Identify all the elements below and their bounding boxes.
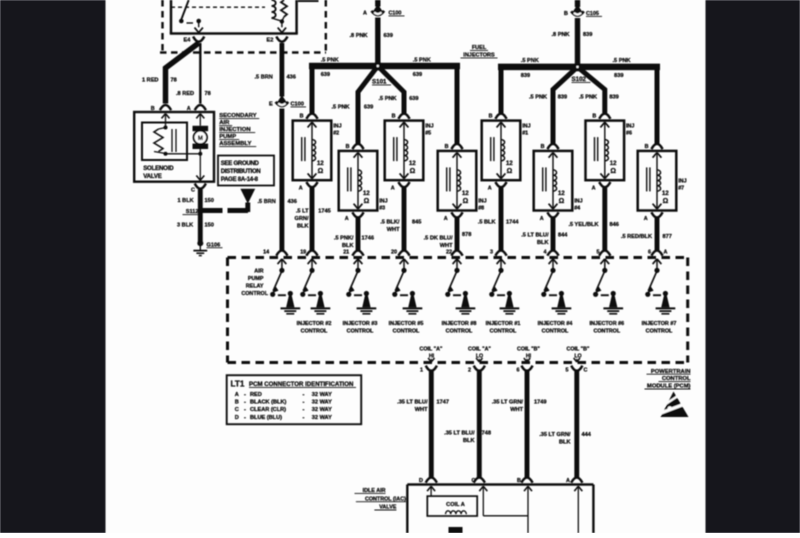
svg-text:32 WAY: 32 WAY bbox=[312, 407, 332, 413]
svg-text:32 WAY: 32 WAY bbox=[312, 415, 332, 421]
svg-text:844: 844 bbox=[558, 233, 568, 239]
fuel injectors label bbox=[461, 45, 498, 59]
svg-text:#7: #7 bbox=[678, 185, 684, 191]
svg-text:150: 150 bbox=[205, 222, 214, 228]
cut-off label fragment bbox=[298, 0, 319, 2]
svg-text:Ω: Ω bbox=[507, 168, 513, 175]
svg-text:C: C bbox=[235, 407, 239, 413]
svg-text:CONTROL: CONTROL bbox=[542, 329, 569, 335]
LT1 PCM connector identification table bbox=[227, 375, 362, 424]
svg-text:#1: #1 bbox=[522, 131, 528, 137]
label .5 LT GRN/BLK 1745 bbox=[295, 208, 331, 229]
svg-text:INJ: INJ bbox=[333, 124, 341, 130]
svg-text:150: 150 bbox=[205, 198, 214, 204]
svg-text:D: D bbox=[419, 478, 423, 484]
svg-text:20: 20 bbox=[391, 250, 397, 256]
svg-text:.5 PNK: .5 PNK bbox=[332, 105, 350, 111]
air pump relay dashed enclosure bbox=[160, 0, 326, 53]
svg-text:.5 PNK: .5 PNK bbox=[579, 95, 597, 101]
svg-text:.5 PNK/: .5 PNK/ bbox=[334, 236, 354, 242]
svg-text:839: 839 bbox=[583, 32, 592, 38]
IAC coil B box cut off at bottom bbox=[449, 527, 463, 533]
connector C100 inline (cavity E) bbox=[269, 95, 306, 108]
injector feed bus right (S102) bbox=[498, 67, 660, 144]
pin numbers on PCM top edge bbox=[263, 250, 667, 256]
svg-text:CONTROL: CONTROL bbox=[646, 329, 673, 335]
injector INJ #7 bbox=[638, 144, 687, 222]
svg-text:Ω: Ω bbox=[410, 168, 416, 175]
svg-text:1744: 1744 bbox=[506, 220, 519, 226]
svg-text:1: 1 bbox=[420, 368, 423, 374]
wire .5 BRN 436 lower bbox=[258, 109, 297, 251]
injector #5 control driver bbox=[392, 259, 422, 314]
svg-text:LT1: LT1 bbox=[231, 379, 245, 388]
svg-text:19: 19 bbox=[300, 250, 306, 256]
svg-text:1748: 1748 bbox=[479, 431, 491, 437]
injector #7 control driver bbox=[645, 259, 675, 314]
wire .5 PNK/BLK 1746 bbox=[352, 218, 363, 256]
svg-text:.5 PNK: .5 PNK bbox=[521, 58, 539, 64]
svg-text:12: 12 bbox=[610, 161, 617, 167]
svg-text:B: B bbox=[564, 11, 568, 17]
svg-text:E2: E2 bbox=[267, 38, 274, 44]
secondary air injection pump assembly box bbox=[134, 112, 214, 182]
svg-text:1 RED: 1 RED bbox=[142, 78, 158, 84]
svg-text:#3: #3 bbox=[379, 205, 385, 211]
svg-text:A: A bbox=[391, 186, 395, 192]
svg-text:.35 LT GRN/: .35 LT GRN/ bbox=[539, 432, 571, 438]
svg-text:CONTROL: CONTROL bbox=[593, 329, 620, 335]
svg-text:6: 6 bbox=[648, 250, 651, 256]
svg-text:BLACK (BLK): BLACK (BLK) bbox=[250, 400, 286, 406]
svg-text:.5 PNK: .5 PNK bbox=[529, 95, 547, 101]
svg-text:A: A bbox=[644, 216, 648, 222]
injector INJ #2 bbox=[293, 114, 342, 192]
svg-text:6: 6 bbox=[517, 368, 520, 374]
svg-text:12: 12 bbox=[409, 161, 416, 167]
svg-text:CONTROL: CONTROL bbox=[393, 329, 420, 335]
terminal E2 bbox=[267, 37, 288, 44]
svg-text:878: 878 bbox=[462, 232, 471, 238]
svg-text:-: - bbox=[303, 415, 305, 421]
svg-text:839: 839 bbox=[609, 95, 618, 101]
label .5 DK BLU/WHT 878 bbox=[424, 232, 472, 249]
svg-text:S102: S102 bbox=[572, 76, 587, 83]
solenoid coil symbol bbox=[154, 126, 200, 156]
svg-text:639: 639 bbox=[384, 33, 393, 39]
svg-text:.8 RED: .8 RED bbox=[176, 91, 194, 97]
svg-text:VALVE: VALVE bbox=[143, 173, 162, 180]
svg-text:BLUE (BLU): BLUE (BLU) bbox=[250, 415, 282, 421]
label .5 PNK 839 (INJ1) bbox=[521, 58, 539, 79]
label .5 BLK/WHT 845 bbox=[380, 220, 421, 234]
svg-text:WHT: WHT bbox=[510, 407, 523, 413]
svg-text:COIL A: COIL A bbox=[446, 502, 465, 508]
svg-text:INJ: INJ bbox=[478, 198, 486, 204]
wire .5 RED/BLK 877 bbox=[651, 218, 662, 256]
svg-text:INJ: INJ bbox=[574, 198, 582, 204]
svg-text:#8: #8 bbox=[478, 205, 484, 211]
wire .5 LT BLU/BLK 844 bbox=[547, 218, 558, 256]
svg-text:.5 DK BLU/: .5 DK BLU/ bbox=[424, 236, 453, 242]
wire .8 RED 78 bbox=[176, 43, 211, 104]
svg-text:.35 LT BLU/: .35 LT BLU/ bbox=[444, 431, 475, 437]
svg-text:BLK: BLK bbox=[297, 223, 309, 229]
svg-text:B: B bbox=[445, 144, 449, 150]
svg-text:B: B bbox=[392, 114, 396, 120]
wire 3 BLK 150 bbox=[177, 213, 214, 242]
svg-text:845: 845 bbox=[412, 220, 421, 226]
svg-text:1 BLK: 1 BLK bbox=[178, 198, 194, 204]
SAI terminal A bbox=[187, 105, 206, 126]
splice S102 bbox=[572, 62, 591, 83]
wire .5 BLK/WHT 845 bbox=[398, 188, 409, 256]
svg-text:.8 PNK: .8 PNK bbox=[350, 33, 368, 39]
svg-text:INJECTOR #5: INJECTOR #5 bbox=[389, 321, 424, 327]
svg-text:A: A bbox=[540, 216, 544, 222]
svg-text:Ω: Ω bbox=[463, 198, 469, 205]
svg-text:32 WAY: 32 WAY bbox=[312, 392, 332, 398]
injector INJ #1 bbox=[482, 114, 531, 192]
SAI terminal C bbox=[191, 176, 206, 194]
IAC terminal A bbox=[566, 478, 582, 533]
PCM coil B LO output pin 5, wire .35 LT GRN/BLK 444 bbox=[566, 358, 583, 483]
PCM coil A HI output pin 1, wire .35 LT BLU/WHT 1747 bbox=[420, 358, 437, 483]
svg-text:INJ: INJ bbox=[678, 178, 686, 184]
injector #7 control label bbox=[642, 321, 677, 335]
svg-text:444: 444 bbox=[582, 432, 592, 438]
wire 1 BLK 150 bbox=[178, 189, 214, 208]
svg-text:INJECTOR #3: INJECTOR #3 bbox=[343, 321, 378, 327]
svg-text:.5 BRN: .5 BRN bbox=[255, 75, 273, 81]
svg-text:-: - bbox=[303, 407, 305, 413]
svg-text:WHT: WHT bbox=[387, 227, 400, 233]
svg-text:SEE GROUND: SEE GROUND bbox=[221, 161, 260, 167]
svg-text:3 BLK: 3 BLK bbox=[177, 222, 193, 228]
injector #6 control label bbox=[589, 321, 624, 335]
idle air control valve box bbox=[407, 485, 593, 534]
PCM coil A LO output pin 2, wire .35 LT BLU/BLK 1748 bbox=[468, 358, 485, 483]
svg-text:COIL "B": COIL "B" bbox=[517, 347, 540, 353]
injector #1 control label bbox=[486, 321, 521, 335]
svg-text:.8 PNK: .8 PNK bbox=[552, 32, 570, 38]
label .35 LT BLU/WHT 1747 bbox=[397, 400, 449, 414]
svg-text:INJECTOR #6: INJECTOR #6 bbox=[589, 321, 624, 327]
svg-text:RED: RED bbox=[250, 392, 262, 398]
ESD sensitive symbol bbox=[657, 392, 690, 418]
svg-text:639: 639 bbox=[321, 72, 330, 78]
IAC terminal B bbox=[517, 478, 532, 533]
svg-text:-: - bbox=[244, 407, 246, 413]
ground G106 bbox=[193, 240, 222, 255]
svg-text:839: 839 bbox=[614, 73, 623, 79]
svg-text:INJ: INJ bbox=[379, 198, 387, 204]
svg-text:Ω: Ω bbox=[364, 198, 370, 205]
svg-text:2: 2 bbox=[468, 368, 471, 374]
svg-text:CONTROL: CONTROL bbox=[490, 329, 517, 335]
coil B LO label bbox=[567, 347, 590, 360]
svg-text:78: 78 bbox=[205, 91, 211, 97]
svg-text:WHT: WHT bbox=[415, 407, 428, 413]
svg-text:B: B bbox=[151, 106, 155, 112]
svg-text:#4: #4 bbox=[574, 205, 580, 211]
label .5 BLK 1744 bbox=[478, 220, 520, 226]
svg-text:INJ: INJ bbox=[522, 124, 530, 130]
svg-text:.5 PNK: .5 PNK bbox=[613, 58, 631, 64]
svg-text:A: A bbox=[345, 216, 349, 222]
see ground distribution note box bbox=[218, 156, 274, 186]
powertrain control module dashed box bbox=[228, 258, 688, 363]
arch for pin 14 wire bbox=[276, 251, 287, 256]
wire .5 BRN 436 upper bbox=[255, 43, 296, 97]
idle air control valve label bbox=[355, 488, 407, 511]
injector #4 control driver bbox=[541, 259, 571, 314]
label .35 LT BLU/BLK 1748 bbox=[444, 431, 491, 445]
svg-text:CONTROL: CONTROL bbox=[301, 329, 328, 335]
wire .5 LT GRN/BLK 1745 bbox=[306, 188, 317, 256]
relay box bbox=[170, 0, 298, 34]
injector INJ #5 bbox=[385, 114, 434, 192]
svg-text:12: 12 bbox=[363, 191, 370, 197]
svg-text:#6: #6 bbox=[626, 131, 632, 137]
svg-text:Ω: Ω bbox=[559, 198, 565, 205]
coil A HI label bbox=[420, 347, 443, 360]
wire 1 RED 78 bbox=[142, 43, 199, 104]
svg-text:436: 436 bbox=[288, 199, 297, 205]
svg-text:3: 3 bbox=[490, 250, 493, 256]
svg-text:INJECTOR #7: INJECTOR #7 bbox=[642, 321, 677, 327]
right black margin bbox=[706, 0, 800, 533]
svg-text:COIL "A": COIL "A" bbox=[468, 347, 491, 353]
svg-text:GRN/: GRN/ bbox=[295, 216, 309, 222]
svg-text:INJECTOR #1: INJECTOR #1 bbox=[486, 321, 521, 327]
svg-text:14: 14 bbox=[263, 250, 269, 256]
left black margin bbox=[0, 0, 106, 533]
svg-text:639: 639 bbox=[409, 96, 418, 102]
svg-text:B: B bbox=[346, 144, 350, 150]
svg-text:HI: HI bbox=[526, 354, 532, 360]
IAC terminal C bbox=[472, 478, 488, 516]
svg-text:12: 12 bbox=[317, 161, 324, 167]
ground distribution triangle bbox=[240, 189, 255, 204]
svg-text:CONTROL: CONTROL bbox=[347, 329, 374, 335]
svg-text:12: 12 bbox=[558, 191, 565, 197]
svg-text:4: 4 bbox=[544, 250, 547, 256]
wire .5 BLK 1744 bbox=[495, 188, 506, 256]
svg-text:INJECTOR #4: INJECTOR #4 bbox=[538, 321, 573, 327]
svg-text:A: A bbox=[187, 106, 191, 112]
svg-text:78: 78 bbox=[171, 78, 177, 84]
splice S112 bbox=[183, 208, 204, 216]
svg-text:Ω: Ω bbox=[318, 168, 324, 175]
injector #8 control driver bbox=[445, 259, 475, 314]
svg-text:Ω: Ω bbox=[663, 198, 669, 205]
svg-text:436: 436 bbox=[287, 75, 296, 81]
svg-text:.5 PNK: .5 PNK bbox=[379, 96, 397, 102]
injector INJ #4 bbox=[534, 144, 583, 222]
label .5 PNK 639 (INJ5) bbox=[379, 96, 419, 102]
svg-text:INJECTOR #2: INJECTOR #2 bbox=[297, 321, 332, 327]
svg-text:INJECTOR #8: INJECTOR #8 bbox=[442, 321, 477, 327]
svg-text:CLEAR (CLR): CLEAR (CLR) bbox=[250, 407, 286, 413]
wire .8 PNK 639 with connector C100 cavity A bbox=[350, 0, 405, 64]
injector #5 control label bbox=[389, 321, 424, 335]
injector #3 control driver bbox=[346, 259, 376, 314]
svg-text:COIL "A": COIL "A" bbox=[420, 347, 443, 353]
svg-text:839: 839 bbox=[521, 73, 530, 79]
svg-text:B: B bbox=[541, 144, 545, 150]
svg-text:C: C bbox=[472, 478, 476, 484]
injector #4 control label bbox=[538, 321, 573, 335]
label .5 PNK/BLK 1746 bbox=[334, 236, 374, 250]
svg-text:-: - bbox=[244, 392, 246, 398]
svg-text:.5 YEL/BLK: .5 YEL/BLK bbox=[568, 222, 598, 228]
svg-text:12: 12 bbox=[506, 161, 513, 167]
svg-text:B: B bbox=[592, 114, 596, 120]
svg-text:.5 LT: .5 LT bbox=[296, 208, 309, 214]
svg-text:INJ: INJ bbox=[425, 124, 433, 130]
label .5 PNK 639 (INJ8) bbox=[413, 58, 431, 78]
svg-text:COIL "B": COIL "B" bbox=[567, 347, 590, 353]
splice S101 bbox=[372, 62, 391, 86]
svg-text:B: B bbox=[517, 478, 521, 484]
secondary air injection pump assembly label bbox=[219, 113, 259, 147]
svg-text:.5 BLK: .5 BLK bbox=[478, 220, 496, 226]
injector #2 control label bbox=[297, 321, 332, 335]
svg-text:RELAY: RELAY bbox=[246, 284, 264, 290]
svg-text:BLK: BLK bbox=[537, 240, 549, 246]
svg-text:WHT: WHT bbox=[440, 243, 453, 249]
injector #1 control driver bbox=[489, 259, 519, 314]
svg-text:21: 21 bbox=[343, 250, 349, 256]
wire .5 YEL/BLK 846 bbox=[599, 188, 610, 256]
label .35 LT GRN/WHT 1749 bbox=[492, 400, 547, 414]
svg-text:B: B bbox=[645, 144, 649, 150]
label .5 PNK 839 (INJ6) bbox=[579, 95, 619, 101]
svg-text:639: 639 bbox=[413, 72, 422, 78]
injector #3 control label bbox=[343, 321, 378, 335]
IAC coil A box bbox=[427, 496, 477, 516]
svg-text:B: B bbox=[300, 114, 304, 120]
svg-text:-: - bbox=[244, 400, 246, 406]
svg-text:.35 LT BLU/: .35 LT BLU/ bbox=[397, 400, 428, 406]
svg-text:E: E bbox=[269, 102, 273, 108]
label .5 PNK 639 (INJ2) bbox=[321, 58, 339, 78]
svg-text:A: A bbox=[592, 186, 596, 192]
injector INJ #6 bbox=[586, 114, 635, 192]
svg-text:B: B bbox=[489, 114, 493, 120]
injector #6 control driver bbox=[593, 259, 623, 314]
svg-text:-: - bbox=[244, 415, 246, 421]
relay switch contact bbox=[179, 0, 203, 33]
svg-text:D: D bbox=[235, 415, 239, 421]
svg-text:22: 22 bbox=[446, 250, 452, 256]
svg-text:877: 877 bbox=[663, 234, 672, 240]
svg-text:A: A bbox=[664, 250, 668, 256]
svg-text:M: M bbox=[198, 135, 203, 142]
svg-text:S101: S101 bbox=[372, 79, 387, 86]
injector #2 control driver bbox=[300, 259, 330, 314]
wire .5 DK BLU/WHT 878 bbox=[451, 218, 462, 256]
svg-text:.5 BLK/: .5 BLK/ bbox=[380, 220, 400, 226]
IAC terminal D bbox=[419, 478, 435, 496]
svg-text:12: 12 bbox=[662, 191, 669, 197]
label .5 RED/BLK 877 bbox=[621, 234, 672, 240]
svg-text:1747: 1747 bbox=[437, 400, 449, 406]
injector INJ #8 bbox=[438, 144, 487, 222]
motor M bbox=[193, 126, 209, 181]
svg-text:639: 639 bbox=[364, 105, 373, 111]
svg-text:A: A bbox=[235, 392, 239, 398]
svg-text:A: A bbox=[363, 11, 367, 17]
relay coil and resistor bbox=[271, 0, 287, 33]
svg-text:CONTROL: CONTROL bbox=[446, 329, 473, 335]
svg-text:1745: 1745 bbox=[318, 208, 330, 214]
svg-text:#5: #5 bbox=[425, 131, 431, 137]
svg-text:1746: 1746 bbox=[362, 236, 374, 242]
svg-text:.5 PNK: .5 PNK bbox=[413, 58, 431, 64]
svg-text:BLK: BLK bbox=[463, 438, 475, 444]
svg-text:AIR: AIR bbox=[254, 269, 263, 275]
coil B HI label bbox=[517, 347, 540, 360]
ground distribution reference wire bbox=[202, 203, 248, 213]
label .5 PNK 639 (INJ3) bbox=[332, 105, 374, 111]
svg-text:C: C bbox=[584, 368, 588, 374]
svg-text:32 WAY: 32 WAY bbox=[312, 400, 332, 406]
svg-text:INJ: INJ bbox=[626, 124, 634, 130]
svg-text:A: A bbox=[444, 216, 448, 222]
svg-text:.5 RED/BLK: .5 RED/BLK bbox=[621, 234, 652, 240]
svg-text:DISTRIBUTION: DISTRIBUTION bbox=[221, 169, 261, 175]
coil A LO label bbox=[468, 347, 491, 360]
svg-text:C: C bbox=[191, 188, 195, 194]
svg-text:PAGE 8A-14-8: PAGE 8A-14-8 bbox=[221, 177, 259, 183]
injector INJ #3 bbox=[339, 144, 388, 222]
PCM coil B HI output pin 6, wire .35 LT GRN/WHT 1749 bbox=[517, 358, 533, 483]
air pump relay control label bbox=[241, 269, 268, 298]
svg-text:-: - bbox=[303, 392, 305, 398]
svg-text:5: 5 bbox=[566, 368, 569, 374]
svg-text:.35 LT GRN/: .35 LT GRN/ bbox=[492, 400, 524, 406]
svg-text:A: A bbox=[566, 478, 570, 484]
svg-text:5: 5 bbox=[597, 250, 600, 256]
svg-text:A: A bbox=[299, 186, 303, 192]
svg-text:Ω: Ω bbox=[610, 168, 616, 175]
SAI terminal B bbox=[151, 105, 171, 127]
svg-text:LO: LO bbox=[574, 354, 581, 360]
injector feed bus left (S101) bbox=[309, 66, 460, 144]
terminal E4 bbox=[184, 37, 205, 44]
IAC internal link wire bbox=[483, 515, 528, 517]
label .5 LT BLU/BLK 844 bbox=[521, 233, 568, 247]
svg-text:.5 BRN: .5 BRN bbox=[258, 199, 276, 205]
svg-text:.5 LT BLU/: .5 LT BLU/ bbox=[521, 233, 549, 239]
solenoid valve box bbox=[142, 123, 187, 180]
svg-text:#2: #2 bbox=[333, 131, 339, 137]
svg-text:839: 839 bbox=[558, 95, 567, 101]
svg-text:A: A bbox=[488, 186, 492, 192]
svg-text:846: 846 bbox=[610, 222, 619, 228]
svg-text:CONTROL: CONTROL bbox=[241, 291, 268, 297]
label .5 PNK 839 (INJ7) bbox=[613, 58, 631, 79]
svg-text:-: - bbox=[303, 400, 305, 406]
label .5 PNK 839 (INJ4) bbox=[529, 95, 567, 101]
wire .8 PNK 839 with connector C105 cavity B bbox=[552, 0, 603, 65]
svg-text:PUMP: PUMP bbox=[248, 276, 264, 282]
powertrain control module label bbox=[645, 369, 691, 390]
injector #8 control label bbox=[442, 321, 477, 335]
svg-text:12: 12 bbox=[462, 191, 469, 197]
